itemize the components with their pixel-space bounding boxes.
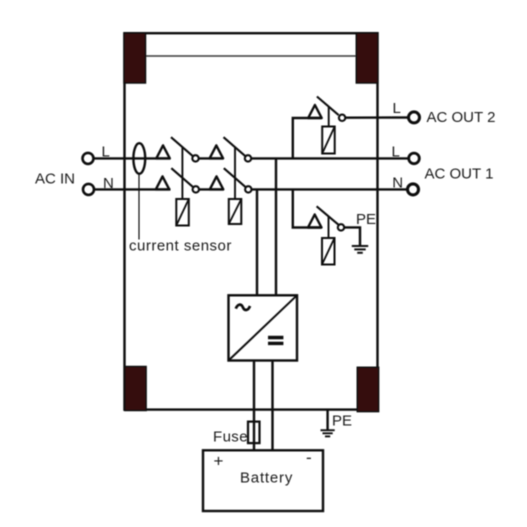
relay K4 contact arm <box>317 206 339 224</box>
wire mid N <box>199 188 224 190</box>
label PE internal <box>356 211 376 228</box>
corner block bottom-right <box>357 367 378 411</box>
enclosure outline <box>125 33 378 409</box>
svg-text:Fuse: Fuse <box>213 429 248 446</box>
label N (AC OUT 1) <box>392 174 403 191</box>
varistor triangle N1 <box>156 176 170 189</box>
svg-text:AC OUT 2: AC OUT 2 <box>427 109 496 126</box>
inner top rail line <box>146 55 356 57</box>
wire to PE ground <box>344 227 360 245</box>
svg-text:Battery: Battery <box>240 470 293 487</box>
wire drop L to inverter <box>275 158 277 295</box>
svg-text:AC OUT 1: AC OUT 1 <box>425 166 494 183</box>
wire riser to AC OUT 2 relay <box>293 118 322 158</box>
label PE chassis <box>332 412 352 429</box>
wire out L <box>251 157 408 159</box>
terminal AC OUT 1 N <box>408 184 419 195</box>
relay K3 actuator rod <box>328 107 330 127</box>
varistor triangle L1 <box>156 145 170 158</box>
wire AC OUT 2 <box>345 116 408 119</box>
terminal AC OUT 1 L <box>409 153 420 164</box>
relay K4 contact circle <box>338 224 344 230</box>
svg-text:PE: PE <box>356 211 376 228</box>
inverter DC bars <box>268 336 283 345</box>
relay K1 actuator rod <box>181 147 183 199</box>
current sensor ellipse <box>133 143 145 174</box>
wire drop N to inverter <box>256 189 258 295</box>
wire mid L <box>199 157 224 159</box>
label Fuse <box>213 429 248 446</box>
corner block bottom-left <box>125 367 146 411</box>
label L (AC in) <box>102 144 110 161</box>
relay K4 coil <box>322 238 335 265</box>
inverter AC tilde <box>236 305 250 310</box>
label L (AC OUT 2) <box>393 100 401 117</box>
label AC IN <box>35 171 75 188</box>
relay K3 coil <box>322 127 335 154</box>
corner block top-left <box>124 33 146 83</box>
relay K2 coil <box>229 199 242 224</box>
relay K2 contact N arm <box>224 168 246 187</box>
wire AC in L <box>94 157 171 159</box>
label L (AC OUT 1) <box>392 144 400 161</box>
varistor triangle AC OUT 2 <box>308 105 322 118</box>
wire inverter to fuse <box>253 361 255 451</box>
svg-text:PE: PE <box>332 412 352 429</box>
svg-text:current sensor: current sensor <box>129 238 232 255</box>
svg-text:-: - <box>306 448 312 467</box>
relay K2 contact N circle <box>245 186 251 192</box>
wire inverter to battery minus <box>271 361 273 451</box>
ground PE internal <box>352 246 368 253</box>
svg-text:L: L <box>393 100 401 117</box>
label battery plus <box>214 452 224 471</box>
varistor triangle L2 <box>210 145 224 158</box>
varistor triangle PE <box>308 215 322 228</box>
relay K4 actuator rod <box>328 216 330 238</box>
svg-text:+: + <box>214 452 224 471</box>
svg-text:AC IN: AC IN <box>35 171 75 188</box>
relay K1 coil <box>176 199 189 226</box>
wire AC in N <box>94 188 171 190</box>
corner block top-right <box>356 33 378 83</box>
ground PE chassis <box>321 410 335 437</box>
battery B1 box <box>203 450 323 511</box>
terminal AC IN N <box>83 184 94 195</box>
relay K1 contact L arm <box>171 137 193 156</box>
terminal AC IN L <box>83 153 94 164</box>
varistor triangle N2 <box>210 176 224 189</box>
wire out N <box>252 188 408 190</box>
svg-text:L: L <box>392 144 400 161</box>
relay K2 actuator rod <box>234 147 236 199</box>
wire drop N to PE relay <box>293 189 322 227</box>
svg-text:N: N <box>392 174 403 191</box>
relay K3 contact circle <box>339 115 345 121</box>
relay K1 contact N arm <box>171 168 193 187</box>
relay K3 contact arm <box>317 97 339 116</box>
label current sensor <box>129 238 232 255</box>
label battery minus <box>306 448 312 467</box>
terminal AC OUT 2 <box>409 112 420 123</box>
label N (AC in) <box>103 175 114 192</box>
relay K1 contact N circle <box>193 186 199 192</box>
current sensor leader line <box>138 174 140 240</box>
inverter U1 box <box>229 295 298 360</box>
relay K1 contact L circle <box>192 155 198 161</box>
relay K2 contact L arm <box>224 137 246 156</box>
relay K2 contact L circle <box>245 155 251 161</box>
label AC OUT 2 <box>427 109 496 126</box>
label AC OUT 1 <box>425 166 494 183</box>
label Battery <box>240 470 293 487</box>
fuse F1 <box>248 422 260 444</box>
